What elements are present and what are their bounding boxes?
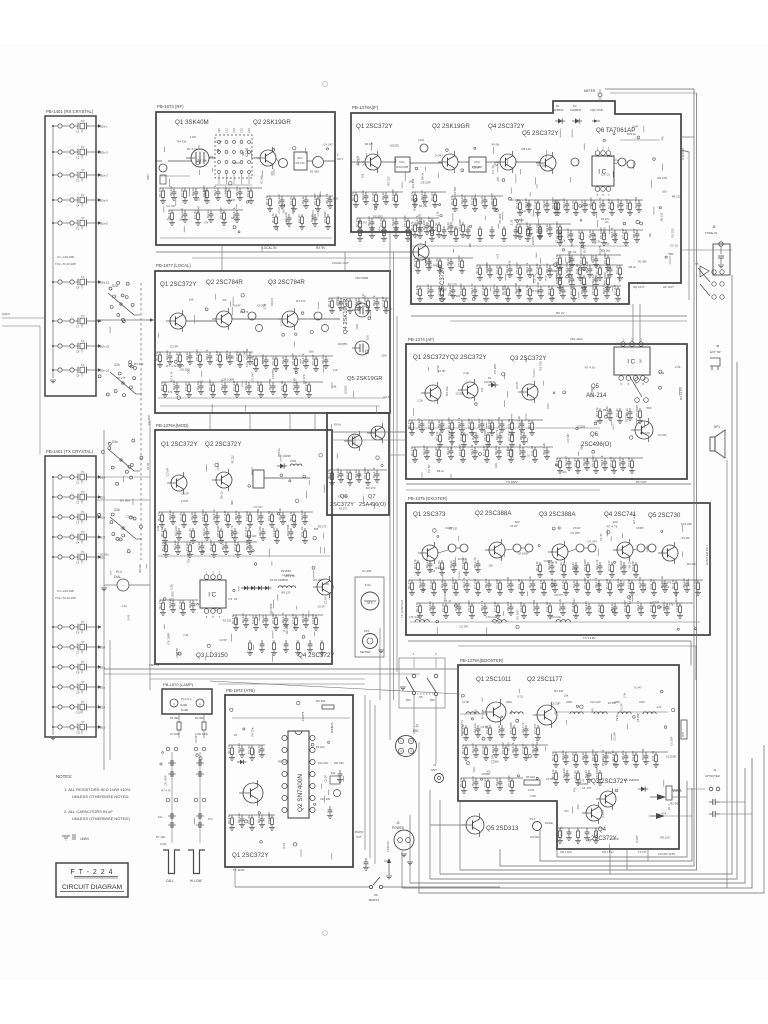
svg-text:D1: D1 — [488, 376, 492, 380]
svg-text:C3 .01: C3 .01 — [577, 230, 581, 239]
svg-text:C3 .01: C3 .01 — [441, 603, 445, 612]
svg-text:SLIDE: SLIDE — [180, 704, 188, 707]
svg-text:UNLESS OTHERWISE NOTED): UNLESS OTHERWISE NOTED) — [72, 816, 130, 821]
svg-text:R10 220: R10 220 — [318, 761, 328, 765]
svg-text:TC: TC — [81, 339, 85, 343]
svg-text:C3 .01: C3 .01 — [184, 382, 188, 391]
svg-text:1. ALL RESISTORS IN Ω 1/4W ±: 1. ALL RESISTORS IN Ω 1/4W ±10% — [64, 787, 131, 792]
svg-text:R2 220: R2 220 — [561, 750, 565, 760]
svg-text:R3 270: R3 270 — [365, 142, 374, 146]
svg-text:C3 .01: C3 .01 — [568, 250, 577, 254]
svg-text:C3 .01: C3 .01 — [251, 615, 255, 624]
svg-text:TC: TC — [81, 363, 85, 367]
svg-text:0.01: 0.01 — [194, 198, 200, 202]
svg-text:C3 .01: C3 .01 — [371, 192, 375, 201]
svg-text:R9 1k: R9 1k — [601, 759, 605, 766]
svg-text:C2 5P: C2 5P — [194, 735, 198, 743]
svg-text:R4 1k: R4 1k — [581, 752, 585, 760]
svg-text:C3 .01: C3 .01 — [247, 745, 251, 754]
svg-text:S2b: S2b — [114, 363, 120, 367]
svg-text:C6 20P: C6 20P — [590, 387, 594, 397]
svg-text:C6 20P: C6 20P — [257, 304, 266, 308]
svg-text:IC: IC — [627, 359, 637, 366]
svg-text:52b: 52b — [100, 496, 105, 500]
svg-text:R2 220: R2 220 — [174, 526, 178, 536]
svg-text:0.01: 0.01 — [282, 843, 286, 849]
svg-text:R4 33k: R4 33k — [531, 289, 540, 293]
svg-text:C3 .01: C3 .01 — [180, 188, 184, 197]
svg-text:C5 100P: C5 100P — [313, 193, 317, 205]
svg-text:R6 4.7k: R6 4.7k — [601, 749, 605, 760]
svg-text:C6 20P: C6 20P — [613, 732, 617, 741]
svg-text:R10 560: R10 560 — [497, 416, 501, 428]
svg-text:R4 33k: R4 33k — [419, 204, 428, 208]
svg-text:C3 .01: C3 .01 — [615, 408, 619, 417]
svg-text:C2: C2 — [76, 501, 80, 505]
svg-text:C2 5P: C2 5P — [323, 596, 327, 604]
svg-text:R1 560: R1 560 — [453, 186, 457, 195]
svg-text:S24: S24 — [100, 706, 106, 710]
svg-text:100: 100 — [473, 709, 477, 714]
svg-text:R1 47k: R1 47k — [327, 297, 331, 307]
svg-text:C2: C2 — [76, 156, 80, 160]
svg-text:R2 220: R2 220 — [425, 558, 429, 568]
svg-text:1S1555: 1S1555 — [532, 236, 535, 245]
svg-text:TC: TC — [81, 720, 85, 724]
svg-text:GND: GND — [384, 859, 390, 863]
svg-text:0.01: 0.01 — [279, 320, 283, 326]
svg-text:TONE IN: TONE IN — [705, 231, 717, 235]
svg-text:R7 100: R7 100 — [156, 835, 165, 839]
svg-text:C7 .047: C7 .047 — [381, 296, 385, 307]
svg-text:C9 20P: C9 20P — [675, 602, 679, 612]
svg-text:C3 .01: C3 .01 — [434, 222, 438, 231]
svg-text:C3 .01: C3 .01 — [559, 562, 563, 571]
svg-text:R9 1k: R9 1k — [437, 469, 445, 473]
svg-text:R7 4.7k: R7 4.7k — [632, 513, 636, 524]
svg-text:R2 220: R2 220 — [169, 186, 173, 196]
svg-text:C11 .01: C11 .01 — [545, 601, 549, 612]
svg-text:UNLESS OTHERWISE NOTED.: UNLESS OTHERWISE NOTED. — [72, 794, 130, 799]
svg-text:OUT: OUT — [337, 157, 343, 161]
svg-text:C3 .01: C3 .01 — [125, 514, 134, 518]
svg-text:LOCAL IN: LOCAL IN — [262, 246, 277, 250]
svg-text:C6 20P: C6 20P — [551, 701, 560, 705]
svg-text:47k: 47k — [507, 260, 511, 265]
svg-text:R4 1k: R4 1k — [190, 512, 194, 520]
svg-text:C5 100P: C5 100P — [515, 262, 519, 274]
svg-text:J5: J5 — [712, 225, 716, 229]
svg-text:C1~C10 30P: C1~C10 30P — [57, 255, 74, 259]
svg-text:Q3 2SC388A: Q3 2SC388A — [539, 511, 576, 518]
svg-text:D2,D3 1S88FM: D2,D3 1S88FM — [270, 578, 288, 582]
svg-text:R10 560: R10 560 — [506, 576, 510, 588]
svg-text:C3 .01: C3 .01 — [345, 470, 349, 479]
svg-text:C9 20P: C9 20P — [245, 511, 249, 521]
svg-text:C3 .01: C3 .01 — [175, 352, 179, 361]
svg-text:2.2k: 2.2k — [156, 525, 160, 531]
svg-text:47k: 47k — [480, 387, 484, 392]
svg-text:Q2 SN7400N: Q2 SN7400N — [297, 774, 304, 812]
svg-text:C5 100P: C5 100P — [603, 252, 607, 264]
svg-text:12V+RX 13.8V: 12V+RX 13.8V — [658, 852, 676, 856]
svg-text:52a: 52a — [100, 476, 105, 480]
svg-text:C9 20P: C9 20P — [627, 579, 631, 589]
svg-text:R9 1k: R9 1k — [334, 422, 342, 426]
svg-text:R1 47k: R1 47k — [327, 469, 331, 479]
svg-text:0.047: 0.047 — [190, 135, 197, 139]
svg-text:560: 560 — [668, 252, 673, 256]
svg-text:13.8V DC: 13.8V DC — [386, 841, 390, 852]
svg-text:VR1 47kB: VR1 47kB — [590, 108, 603, 112]
svg-text:R4 33k: R4 33k — [537, 163, 546, 167]
svg-text:PB-1873 (RF): PB-1873 (RF) — [157, 104, 184, 109]
svg-text:R1 47k: R1 47k — [459, 777, 463, 787]
svg-text:R12 2.2k: R12 2.2k — [292, 377, 296, 390]
svg-text:C5 100P: C5 100P — [507, 775, 511, 787]
svg-text:C2 5P: C2 5P — [324, 775, 328, 783]
svg-text:47k: 47k — [330, 725, 334, 730]
svg-text:R1 560: R1 560 — [516, 610, 520, 620]
svg-text:(ANT): (ANT) — [2, 312, 10, 316]
svg-text:R1 47k: R1 47k — [158, 187, 162, 197]
svg-text:R4 33k: R4 33k — [674, 592, 678, 602]
svg-text:C7 .047: C7 .047 — [621, 228, 625, 239]
svg-text:F T - 2 2 4: F T - 2 2 4 — [70, 869, 113, 876]
svg-text:C6: C6 — [76, 286, 80, 290]
svg-text:C20: C20 — [217, 128, 221, 133]
svg-text:METER: METER — [584, 89, 596, 93]
svg-text:R6 4.7k: R6 4.7k — [372, 295, 376, 306]
svg-text:C4 .047: C4 .047 — [535, 740, 539, 751]
svg-text:R8 10k: R8 10k — [632, 228, 636, 238]
svg-text:C6 20P: C6 20P — [421, 181, 431, 185]
svg-text:C3 .01: C3 .01 — [571, 752, 575, 761]
svg-text:R7 4.7k: R7 4.7k — [607, 525, 618, 529]
svg-text:2.2k: 2.2k — [675, 365, 681, 369]
svg-text:0.01: 0.01 — [198, 379, 204, 383]
svg-text:0.047: 0.047 — [229, 198, 236, 202]
svg-text:R10 560: R10 560 — [518, 443, 522, 455]
svg-text:R2 220: R2 220 — [566, 228, 570, 238]
svg-text:R1 47k: R1 47k — [157, 511, 161, 521]
svg-text:100: 100 — [324, 582, 329, 586]
svg-text:Q1 2SC372Y: Q1 2SC372Y — [413, 354, 449, 361]
svg-text:R7 4.7k: R7 4.7k — [585, 366, 596, 370]
svg-text:D4 1S88FM: D4 1S88FM — [624, 778, 640, 782]
svg-text:R1 47k: R1 47k — [231, 614, 235, 624]
svg-text:C5 100P: C5 100P — [291, 353, 295, 365]
svg-text:52b: 52b — [100, 686, 105, 690]
svg-text:R4 1k: R4 1k — [571, 562, 575, 570]
svg-text:C6 20P: C6 20P — [338, 495, 348, 499]
svg-text:AF OUT: AF OUT — [663, 285, 674, 289]
svg-text:47k: 47k — [573, 787, 577, 792]
svg-text:R4 33k: R4 33k — [458, 557, 468, 561]
svg-text:C24: C24 — [247, 128, 251, 133]
svg-text:R1 47k: R1 47k — [161, 541, 165, 551]
svg-text:C11 .01: C11 .01 — [300, 526, 304, 537]
svg-text:1S1555: 1S1555 — [576, 425, 586, 429]
svg-text:SP1: SP1 — [714, 425, 720, 429]
svg-text:Q4 2SC372Y: Q4 2SC372Y — [298, 652, 334, 659]
svg-text:R10 560: R10 560 — [286, 524, 290, 536]
svg-text:ANT: ANT — [682, 732, 685, 737]
svg-text:R10 560: R10 560 — [268, 378, 272, 390]
svg-text:R2 220: R2 220 — [449, 527, 458, 531]
svg-text:C1: C1 — [76, 481, 80, 485]
svg-text:R4 1k: R4 1k — [261, 615, 265, 623]
svg-text:R4 1k: R4 1k — [440, 580, 444, 588]
svg-text:L804: L804 — [506, 700, 512, 704]
svg-text:Q7: Q7 — [368, 494, 375, 500]
svg-text:2.2k: 2.2k — [550, 296, 556, 300]
svg-text:10k: 10k — [524, 357, 528, 362]
svg-text:100: 100 — [570, 295, 575, 299]
svg-text:CF1: CF1 — [399, 160, 405, 164]
svg-text:R4 33k: R4 33k — [687, 562, 696, 566]
svg-text:560: 560 — [568, 257, 572, 262]
svg-text:0.01: 0.01 — [606, 751, 612, 755]
svg-text:S3b: S3b — [114, 508, 120, 512]
svg-text:R1 47k: R1 47k — [553, 199, 557, 209]
svg-text:C3 .01: C3 .01 — [178, 600, 182, 609]
svg-text:C3 .01: C3 .01 — [573, 458, 577, 467]
svg-text:C6 20P: C6 20P — [147, 415, 151, 425]
svg-text:R6 4.7k: R6 4.7k — [462, 577, 466, 588]
svg-text:R4 1k: R4 1k — [257, 815, 261, 823]
svg-text:R4 1k: R4 1k — [495, 778, 499, 786]
svg-text:R8 120: R8 120 — [278, 760, 288, 764]
svg-text:C5 100P: C5 100P — [583, 559, 587, 571]
svg-text:10k: 10k — [605, 241, 610, 245]
svg-text:C5 100P: C5 100P — [635, 405, 639, 417]
svg-text:100: 100 — [408, 180, 413, 184]
svg-text:C7 .047: C7 .047 — [613, 284, 617, 295]
svg-text:10k: 10k — [332, 385, 337, 389]
svg-text:C3 .01: C3 .01 — [345, 298, 349, 307]
svg-text:C2 5P: C2 5P — [473, 165, 481, 169]
svg-text:R3 270: R3 270 — [271, 297, 274, 306]
svg-text:C3 .01: C3 .01 — [179, 512, 183, 521]
svg-text:0.047: 0.047 — [233, 161, 241, 165]
svg-text:R3 270: R3 270 — [448, 283, 457, 287]
svg-text:R3 270: R3 270 — [413, 201, 417, 211]
svg-text:TX 182V: TX 182V — [506, 480, 518, 484]
svg-text:R1 560: R1 560 — [501, 286, 505, 295]
svg-text:ANT: ANT — [431, 768, 437, 772]
svg-text:S5: S5 — [695, 262, 699, 266]
svg-text:OUT: OUT — [356, 835, 362, 839]
svg-text:C7 .047: C7 .047 — [605, 578, 609, 589]
svg-text:D1: D1 — [556, 104, 560, 108]
svg-text:2. ALL CAPACITORS IN uF: 2. ALL CAPACITORS IN uF — [64, 809, 113, 814]
svg-text:ANT: ANT — [146, 174, 150, 180]
svg-text:100: 100 — [357, 473, 361, 478]
svg-text:C5 100P: C5 100P — [267, 812, 271, 824]
svg-text:C9 20P: C9 20P — [246, 187, 250, 197]
svg-text:C11 .01: C11 .01 — [507, 418, 511, 429]
svg-text:AF IN: AF IN — [146, 463, 150, 470]
svg-text:R1 47k: R1 47k — [551, 751, 555, 761]
svg-text:C6 20P: C6 20P — [636, 713, 640, 722]
svg-text:R6 4.7k: R6 4.7k — [457, 417, 461, 428]
svg-text:C11 .01: C11 .01 — [525, 284, 529, 295]
svg-text:C2 5P: C2 5P — [427, 464, 431, 473]
svg-text:52a-11: 52a-11 — [100, 281, 109, 285]
svg-text:PB-1401 (RX CRYSTAL): PB-1401 (RX CRYSTAL) — [46, 109, 94, 114]
svg-text:R2 220: R2 220 — [426, 284, 430, 294]
svg-text:C8 100P: C8 100P — [163, 775, 167, 785]
svg-text:R2 220: R2 220 — [460, 194, 464, 204]
svg-text:47k: 47k — [487, 769, 492, 773]
svg-text:R4 1k: R4 1k — [202, 528, 206, 536]
svg-text:C12 G20: C12 G20 — [590, 700, 601, 704]
svg-text:Q5 2SK19GR: Q5 2SK19GR — [347, 376, 382, 382]
svg-text:R4 33k: R4 33k — [480, 709, 484, 719]
svg-text:C9 20P: C9 20P — [487, 419, 491, 429]
svg-text:Q1 2SC372Y: Q1 2SC372Y — [232, 852, 268, 859]
svg-text:TC: TC — [81, 530, 85, 534]
svg-text:R1 47k: R1 47k — [450, 195, 454, 205]
svg-text:C8 100P: C8 100P — [222, 378, 234, 382]
svg-text:C6 2P: C6 2P — [510, 524, 518, 528]
svg-text:S24: S24 — [100, 536, 106, 540]
svg-text:R2 220: R2 220 — [640, 431, 650, 435]
svg-text:SW 1 RL2: SW 1 RL2 — [602, 850, 614, 854]
svg-text:47k: 47k — [222, 298, 227, 302]
svg-text:C11 .01: C11 .01 — [280, 380, 284, 391]
svg-text:R1 47k: R1 47k — [410, 446, 414, 456]
svg-text:R1 560: R1 560 — [506, 742, 510, 751]
svg-text:C5 100P: C5 100P — [391, 189, 395, 201]
svg-text:R7 4.7k: R7 4.7k — [166, 364, 177, 368]
svg-text:XMIT IN: XMIT IN — [149, 663, 159, 667]
svg-text:R2 220: R2 220 — [562, 768, 566, 778]
svg-text:2.2k: 2.2k — [430, 569, 436, 573]
svg-text:0.047: 0.047 — [515, 381, 519, 388]
svg-text:DIAL: DIAL — [114, 575, 121, 579]
svg-text:52a-3: 52a-3 — [100, 174, 108, 178]
svg-text:R8 120: R8 120 — [660, 212, 664, 221]
svg-text:R1 47k: R1 47k — [535, 561, 539, 571]
svg-text:10k: 10k — [468, 242, 472, 247]
svg-text:EXCITER OUT: EXCITER OUT — [705, 545, 709, 565]
svg-text:Q3 2SC372Y: Q3 2SC372Y — [510, 355, 546, 362]
svg-text:ATTNUTER: ATTNUTER — [705, 774, 720, 778]
svg-text:R8 120: R8 120 — [281, 591, 290, 595]
svg-text:R8 10k: R8 10k — [321, 354, 325, 364]
svg-text:C7: C7 — [76, 325, 80, 329]
svg-text:Q5 2SC730: Q5 2SC730 — [648, 512, 681, 519]
svg-text:C2 5P: C2 5P — [438, 369, 446, 373]
svg-text:BURST: BURST — [369, 898, 379, 902]
svg-text:R4 1k: R4 1k — [572, 580, 576, 588]
svg-text:R8 10k: R8 10k — [245, 540, 249, 550]
svg-text:R4 33k: R4 33k — [134, 362, 144, 366]
svg-text:10k: 10k — [489, 564, 494, 568]
svg-text:CALL: CALL — [166, 879, 174, 883]
svg-text:R4 1k: R4 1k — [354, 298, 358, 306]
svg-text:52b-25: 52b-25 — [100, 369, 110, 373]
svg-text:C3: C3 — [76, 521, 80, 525]
svg-text:PB-1877 (LOCAL): PB-1877 (LOCAL) — [156, 263, 191, 268]
svg-text:R9 1k: R9 1k — [277, 447, 281, 454]
svg-text:D1: D1 — [234, 733, 238, 737]
svg-text:R4 1k: R4 1k — [281, 356, 285, 364]
svg-text:R4 1k: R4 1k — [188, 600, 192, 608]
svg-text:R4 33k: R4 33k — [197, 159, 207, 163]
svg-text:C11 .01: C11 .01 — [530, 445, 534, 456]
svg-text:C6 20P: C6 20P — [571, 531, 580, 535]
svg-text:R4 1k: R4 1k — [446, 447, 450, 455]
svg-text:C9: C9 — [76, 374, 80, 378]
svg-text:C1~C10 30P: C1~C10 30P — [57, 589, 74, 593]
svg-text:R2 220: R2 220 — [173, 540, 177, 550]
svg-text:R1 560: R1 560 — [353, 434, 357, 444]
svg-text:2.2k: 2.2k — [622, 692, 626, 698]
svg-text:R1 560: R1 560 — [493, 621, 502, 625]
svg-text:2SC496(O): 2SC496(O) — [581, 442, 611, 448]
svg-text:R2 220: R2 220 — [241, 613, 245, 623]
svg-text:S2a: S2a — [112, 284, 118, 288]
svg-text:R4 33k: R4 33k — [492, 144, 501, 147]
svg-text:C2 5P: C2 5P — [230, 530, 234, 538]
svg-text:C8: C8 — [76, 350, 80, 354]
svg-text:C3 .01: C3 .01 — [573, 770, 577, 779]
svg-text:C2 5P: C2 5P — [384, 307, 392, 311]
svg-text:0.047: 0.047 — [435, 154, 443, 158]
svg-text:Q1 2SC372Y: Q1 2SC372Y — [356, 123, 392, 130]
svg-text:R1 47k: R1 47k — [555, 229, 559, 239]
svg-text:J2: J2 — [415, 724, 419, 728]
svg-text:R6 4.7k: R6 4.7k — [595, 559, 599, 570]
svg-text:R1 47k: R1 47k — [227, 814, 231, 824]
svg-text:C8 100P: C8 100P — [498, 213, 502, 223]
svg-text:C5 100P: C5 100P — [451, 577, 455, 589]
svg-text:C2 5P: C2 5P — [244, 148, 248, 157]
svg-text:C9 20P: C9 20P — [235, 351, 239, 361]
svg-text:C6 20P: C6 20P — [670, 736, 674, 745]
svg-text:SLIDE: SLIDE — [545, 821, 553, 825]
svg-text:2.2k: 2.2k — [417, 399, 423, 403]
svg-text:C5 100P: C5 100P — [209, 539, 213, 551]
svg-text:C9 20P: C9 20P — [625, 199, 629, 209]
svg-text:C3 .01: C3 .01 — [271, 356, 275, 365]
svg-text:TC1~TC10 20P: TC1~TC10 20P — [55, 262, 76, 266]
svg-text:C2 5P: C2 5P — [170, 345, 178, 349]
svg-text:C3 .01: C3 .01 — [444, 599, 452, 603]
svg-text:R1 47k: R1 47k — [413, 257, 417, 267]
svg-text:Q5 2SD313: Q5 2SD313 — [486, 825, 519, 832]
svg-text:R8 120: R8 120 — [492, 200, 495, 209]
svg-text:R2 220: R2 220 — [180, 208, 184, 218]
svg-text:R4 1k: R4 1k — [437, 420, 441, 428]
svg-text:C3 .01: C3 .01 — [597, 603, 601, 612]
svg-text:C4 .047: C4 .047 — [572, 598, 576, 608]
svg-text:560: 560 — [438, 265, 442, 270]
svg-text:S04: S04 — [100, 646, 106, 650]
svg-text:C4 .047: C4 .047 — [566, 433, 570, 443]
svg-text:47k: 47k — [661, 812, 666, 816]
svg-text:C9 20P: C9 20P — [311, 614, 315, 624]
svg-text:PL5: PL5 — [364, 629, 370, 633]
svg-text:6.5A: 6.5A — [365, 583, 371, 587]
svg-text:R2 220: R2 220 — [277, 194, 281, 204]
svg-text:47k: 47k — [496, 176, 500, 181]
svg-text:Q2 2SK19GR: Q2 2SK19GR — [432, 123, 470, 130]
svg-text:C7 .047: C7 .047 — [473, 578, 477, 589]
